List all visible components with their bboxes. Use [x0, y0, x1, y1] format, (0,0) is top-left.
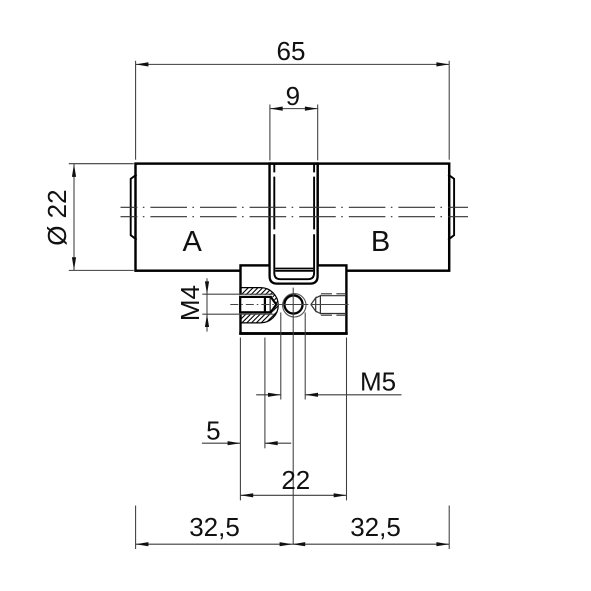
svg-text:M5: M5: [360, 367, 396, 397]
5 extension line (screw line): [264, 338, 266, 449]
M5 dimension line left: [256, 394, 281, 396]
cylinder centerline lower: [121, 216, 469, 218]
M4 arrows (outside): [205, 281, 209, 294]
svg-text:9: 9: [286, 81, 300, 111]
M5 thread thin circle: [283, 294, 306, 317]
svg-text:B: B: [371, 226, 390, 258]
right tapped hole hidden line upper: [321, 293, 346, 295]
M4 bore outline: [240, 288, 278, 323]
thread major dia line upper: [202, 293, 273, 295]
right set screw cone: [311, 298, 316, 311]
M5 dimension line right: [305, 394, 401, 396]
9 dimension line: [270, 108, 318, 110]
coupling inner horizontal seam lower: [275, 270, 313, 272]
dia 22 extension lines: [69, 163, 134, 165]
thread major dia line lower: [202, 313, 273, 315]
5 dimension line right: [265, 442, 291, 444]
32,5 arrows: [136, 542, 149, 546]
M4 screw centerline: [230, 304, 280, 306]
svg-text:A: A: [183, 226, 203, 258]
M5 tapped hole bold circle: [284, 295, 302, 313]
middle coupling top edge: [269, 162, 319, 164]
right set screw body bottom: [320, 313, 346, 315]
22 dimension line: [240, 494, 346, 496]
right tapped hole hidden line lower: [321, 314, 346, 316]
M4 bore hatching: [206, 285, 318, 330]
coupling inner horizontal seam upper: [275, 268, 313, 270]
cylinder half A body: [136, 164, 270, 271]
right end cap: [448, 175, 454, 240]
right set screw chamfer: [316, 296, 321, 314]
svg-text:65: 65: [277, 36, 306, 66]
M5 arrows (outside): [268, 393, 281, 397]
mounting block: [241, 265, 347, 333]
svg-text:M4: M4: [175, 285, 205, 321]
hole horizontal centerline: [279, 304, 309, 306]
M4 dimension line: [206, 278, 208, 331]
cylinder half B body: [318, 164, 450, 271]
9 arrows: [270, 107, 283, 111]
dia22 arrows: [72, 164, 76, 177]
middle coupling inner left line (with gaps): [273, 165, 275, 274]
thread clearance white region: [240, 295, 272, 314]
dia 22 dimension line: [73, 164, 75, 270]
65 extension lines: [135, 61, 137, 160]
65 arrows: [136, 62, 149, 66]
32,5 dimension line: [136, 543, 450, 545]
mounting block bottom edge: [239, 332, 348, 335]
right screw centerline: [311, 304, 349, 306]
9 extension lines: [269, 105, 271, 161]
svg-text:32,5: 32,5: [189, 512, 240, 542]
5 dimension line left: [202, 442, 241, 444]
65 dimension line: [136, 63, 450, 65]
22 arrows: [240, 493, 253, 497]
middle coupling inner bottom U: [274, 273, 314, 279]
M4 set screw body: [240, 297, 271, 312]
arrowheads: [72, 62, 449, 546]
M4 set screw cone point: [271, 297, 277, 312]
svg-text:5: 5: [206, 415, 220, 445]
svg-text:Ø 22: Ø 22: [42, 189, 72, 245]
svg-text:22: 22: [281, 465, 310, 495]
22 extension lines: [239, 338, 241, 501]
center extension line: [292, 288, 294, 544]
M5 extension lines: [280, 313, 282, 400]
middle coupling inner right line (with gaps): [313, 165, 315, 274]
32,5 outer extension lines: [135, 506, 137, 550]
M4 set screw internal line: [264, 297, 266, 312]
middle coupling outer U: [270, 164, 318, 284]
left end cap: [131, 175, 137, 240]
5 arrows (outside): [228, 441, 241, 445]
right set screw body top: [320, 295, 346, 297]
svg-text:32,5: 32,5: [350, 512, 401, 542]
cylinder centerline upper: [121, 206, 469, 208]
